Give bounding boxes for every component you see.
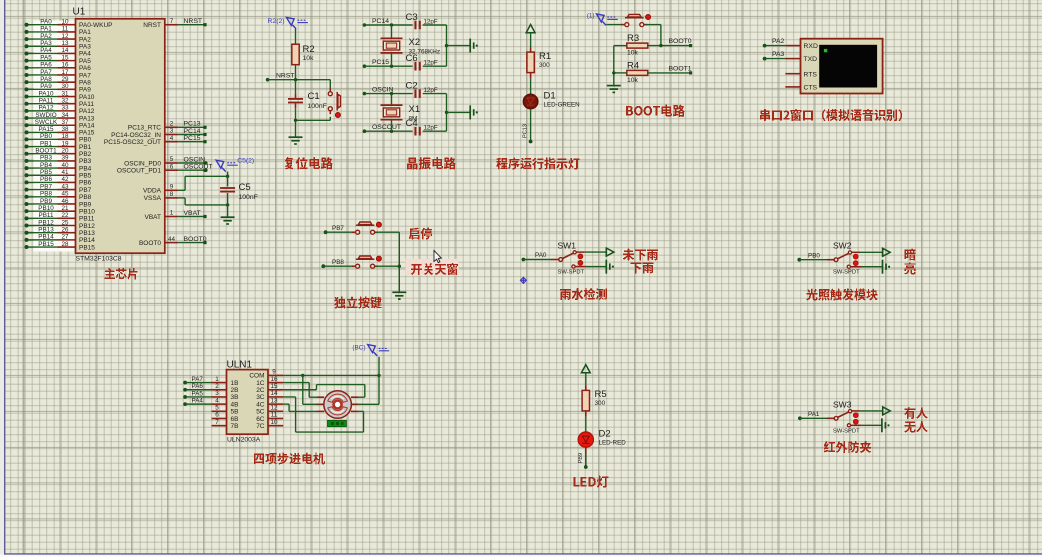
terminal dot PC15 [363,64,367,68]
U1 pin PA15 (38) wire + label PA15 [25,126,95,137]
terminal dot PC14 [363,23,367,27]
svg-text:BOOT0: BOOT0 [669,38,692,45]
terminal dot OSCIN [363,92,367,96]
U1 pin PA11 (32) wire + label PA11 [25,98,95,109]
svg-text:PB8: PB8 [40,191,52,198]
svg-text:PB12: PB12 [38,219,54,226]
svg-text:PC15: PC15 [184,135,201,142]
junction PC14/crystal [390,23,393,26]
reset push button [328,88,340,117]
switch SW3 SW-SPDT [834,410,861,427]
crystal X1 wires [391,94,393,132]
junction OSCOUT/crystal [390,130,393,133]
U1 pin PB3 (39) wire + label PB3 [25,155,92,166]
svg-text:37: 37 [61,119,69,126]
svg-text:16: 16 [270,376,278,383]
svg-text:(BC): (BC) [352,345,365,352]
svg-text:STM32F103C8: STM32F103C8 [76,256,122,263]
U1 pin PA14 (37) wire + label SWCLK [25,119,95,130]
ULN1 pin 1B (1) [212,376,239,387]
svg-text:RTS: RTS [804,71,818,78]
label 启停 [409,228,432,240]
svg-text:C3: C3 [406,12,418,23]
svg-text:10: 10 [61,19,69,26]
right rail X1 [446,94,448,132]
svg-text:PA11: PA11 [39,98,54,105]
caption 四项步进电机 [254,453,325,465]
svg-text:2B: 2B [231,387,239,394]
U1 pin PA13 (34) wire + label SWDIO [25,112,95,123]
crystal X2 wires [391,25,393,66]
svg-text:4C: 4C [256,401,265,408]
svg-text:PB14: PB14 [79,237,95,244]
svg-text:PB5: PB5 [40,169,52,176]
wire C3 to right rail [423,24,447,26]
junction C5 bottom [226,203,229,206]
wire VSSA to C5 bottom rail [178,198,227,205]
svg-text:PB7: PB7 [79,187,92,194]
capacitor C1 [288,91,327,110]
wire R2 bottom to NRST rail [295,65,297,80]
crystal X1 [381,104,421,123]
svg-text:PA1: PA1 [40,26,52,33]
label 无人 [905,421,928,433]
wire PA2 to RXD [765,45,801,47]
svg-text:PB10: PB10 [38,205,54,212]
svg-text:8M: 8M [409,115,418,122]
U1 pin NRST (7) net NRST [143,18,206,29]
label 下雨 [631,263,654,274]
svg-text:PB11: PB11 [39,212,54,219]
svg-text:X2: X2 [409,37,421,48]
ULN1 pin 7C (10) [256,419,283,430]
svg-text:300: 300 [539,62,550,69]
wire SW1 top to arrow 未下雨 [585,251,607,253]
resistor R5 [582,389,607,411]
wire to ground X1 [447,111,471,113]
wire COM right to motor right-middle and BC flag [358,357,379,405]
U1 pin PB15 (28) wire + label PB15 [25,241,96,252]
svg-text:PC14-OSC32_IN: PC14-OSC32_IN [111,132,161,139]
svg-text:X1: X1 [409,104,421,115]
mouse cursor [434,251,441,263]
main chip caption 主芯片 [105,268,138,280]
U1 pin PB14 (27) wire + label PB14 [25,234,96,245]
U1 pin PB6 (42) wire + label PB6 [25,176,92,187]
U1 pin VBAT (1) net VBAT [145,210,207,221]
U1 pin OSCOUT_PD1 (6) net OSCOUT [117,163,213,174]
wire 3C to motor right-bottom (routed below) [283,397,363,432]
wire reset button bottom [296,117,331,121]
terminal dot PA0 [522,258,526,262]
wire SW2 bottom to ground 亮 [861,266,883,268]
white label column behind PB pin names [34,136,75,252]
terminal dot OSCOUT [363,129,367,133]
wire to ground X2 [447,45,471,47]
svg-text:SW2: SW2 [833,241,852,251]
output terminal arrow 暗 [883,248,891,256]
wire C5 to ground [227,205,229,217]
U1 pin PA12 (33) wire + label PA12 [25,105,95,116]
svg-text:PB8: PB8 [332,259,344,266]
svg-text:PB0: PB0 [40,133,52,140]
terminal dot OSCOUT net [204,168,208,172]
svg-text:PC13: PC13 [184,121,201,128]
svg-text:2C: 2C [256,387,265,394]
junction right rail X1 [445,111,448,114]
svg-text:RXD: RXD [804,43,818,50]
wire COM to motor left-middle [303,375,317,404]
svg-text:1C: 1C [256,380,265,387]
terminal PA4 wire to 4B [183,398,211,407]
U1 pin PB8 (45) wire + label PB8 [25,191,92,202]
U1 pin PA6 (16) wire + label PA6 [25,62,92,73]
wire SW2 top to arrow 暗 [860,251,883,253]
svg-text:1B: 1B [231,380,239,387]
U1 pin PA10 (31) wire + label PA10 [25,90,95,101]
U1 pin PB0 (18) wire + label PB0 [25,133,92,144]
ground reset circuit [289,137,303,144]
svg-text:16: 16 [61,62,69,69]
svg-text:15: 15 [61,54,69,61]
terminal square BOOT0 [689,44,692,47]
svg-text:SW3: SW3 [833,399,852,409]
svg-text:1: 1 [170,210,174,217]
svg-text:3: 3 [215,390,219,397]
wire power to R5 [585,373,587,391]
caption LED灯 [574,476,609,488]
wire 4C to motor left-bottom [283,404,317,411]
U1 pin VSSA (8) [144,191,179,202]
svg-text:SWDIO: SWDIO [35,112,56,119]
svg-text:PB11: PB11 [79,216,95,223]
svg-text:R2: R2 [303,44,315,55]
power flag C5(2) [216,157,254,176]
svg-text:ULN1: ULN1 [227,359,253,370]
terminal dot PC13 net [529,140,533,144]
svg-text:PB9: PB9 [40,198,52,205]
U1 pin PA5 (15) wire + label PA5 [25,54,92,65]
svg-text:OSCOUT_PD1: OSCOUT_PD1 [117,168,161,175]
sheet margin left [0,0,4,557]
svg-text:SW-SPDT: SW-SPDT [558,270,585,276]
svg-text:PB0: PB0 [808,252,820,259]
junction C1/button [294,119,297,122]
wire C1 bottom to ground [295,103,297,136]
wire OSCIN row [364,93,412,95]
svg-text:CTS: CTS [804,85,818,92]
power flag (BC) [352,345,389,357]
svg-text:PB14: PB14 [38,234,54,241]
svg-text:21: 21 [61,205,69,212]
svg-text:32.768KHz: 32.768KHz [409,49,441,56]
ULN1 pin COM (9) [249,369,283,380]
wire D1 to PC13 terminal [523,109,531,142]
wire R5 to D2 [585,411,587,433]
output terminal arrow 未下雨 [606,248,614,256]
svg-text:PB7: PB7 [40,183,52,190]
svg-text:11: 11 [62,26,69,33]
svg-text:PB6: PB6 [40,176,52,183]
sheet border bottom [4,553,1042,555]
wire SW3 bottom to ground 无人 [861,424,882,426]
U1 pin PB13 (26) wire + label PB13 [25,226,96,237]
white label column behind PA pin names [34,21,75,137]
CTS pin stub [785,86,800,88]
wire PC15 row [364,65,412,67]
svg-text:44: 44 [168,236,176,243]
svg-text:PA8: PA8 [79,79,91,86]
label 亮 [905,263,916,275]
terminal dot PB9 net [584,465,588,469]
svg-text:3B: 3B [231,394,239,401]
caption 晶振电路 [407,157,456,170]
svg-text:PA14: PA14 [79,123,95,130]
svg-text:22: 22 [61,212,69,219]
wire PB8 button to right rail [376,265,399,267]
svg-text:5B: 5B [231,409,239,416]
svg-text:29: 29 [61,76,69,83]
svg-text:U1: U1 [73,7,86,18]
terminal dot PB8 [321,264,325,268]
U1 pin PC14-OSC32_IN (3) net PC14 [111,128,206,139]
terminal dot PA1 [798,416,802,420]
U1 pin PA2 (12) wire + label PA2 [25,33,92,44]
junction PB8 rail [398,265,401,268]
wire SW1 bottom to ground 下雨 [586,266,607,268]
wire SW3 top to arrow 有人 [860,410,883,412]
U1 pin PB12 (25) wire + label PB12 [25,219,96,230]
svg-text:PA4: PA4 [40,47,52,54]
svg-text:PA0: PA0 [535,252,547,259]
svg-text:NRST: NRST [143,22,161,29]
svg-text:3C: 3C [256,394,265,401]
power flag R2(2) [268,18,308,29]
power terminal arrow above R1 [526,25,535,33]
U1 pin VDDA (9) [143,184,178,195]
U1 pin PB4 (40) wire + label PB4 [25,162,92,173]
svg-text:VBAT: VBAT [184,210,201,217]
svg-text:VBAT: VBAT [145,214,162,221]
wire PC14 row [364,24,412,26]
svg-text:43: 43 [61,183,69,190]
U1 pin PA7 (17) wire + label PA7 [25,69,92,80]
junction BOOT0/button [659,44,662,47]
svg-text:12: 12 [61,33,69,40]
svg-text:PA9: PA9 [40,83,52,90]
svg-text:OSCOUT: OSCOUT [184,164,213,171]
svg-text:7C: 7C [256,423,265,430]
svg-text:5: 5 [215,405,219,412]
IC ULN1 ULN2003A body [227,370,269,435]
svg-text:PA3: PA3 [772,51,785,58]
capacitor C2 [406,80,438,98]
svg-text:26: 26 [61,226,69,233]
U1 pin PA1 (11) wire + label PA1 [25,26,92,37]
output terminal arrow 有人 [883,407,891,415]
svg-text:PA6: PA6 [79,65,91,72]
ground (rotated) SW3 [882,418,886,432]
svg-text:PA5: PA5 [79,58,91,65]
svg-text:PA3: PA3 [40,40,52,47]
resistor R4 [627,61,648,84]
label 未下雨 [623,249,658,261]
right rail buttons to ground [398,232,400,291]
svg-text:10k: 10k [627,50,639,57]
svg-text:33: 33 [61,105,69,112]
svg-text:OSCIN_PD0: OSCIN_PD0 [124,160,161,167]
wire flag to BOOT button [606,24,623,26]
virtual terminal pin labels [804,43,818,91]
ground buttons [392,292,406,299]
svg-text:46: 46 [61,198,69,205]
U1 pin PB2 (20) wire + label BOOT1 [25,148,92,159]
svg-text:PC13: PC13 [523,124,529,138]
svg-text:R4: R4 [627,61,639,72]
svg-text:SWCLK: SWCLK [35,119,58,126]
svg-text:PB9: PB9 [578,453,584,464]
wire VDDA to C5 rail [178,176,227,190]
wire NRST rail [268,79,331,81]
svg-text:1: 1 [215,376,219,383]
svg-text:D1: D1 [544,91,556,102]
ground (rotated) X2 [470,39,474,53]
svg-text:30: 30 [61,83,69,90]
svg-text:12: 12 [270,405,278,412]
ULN1 pin 3B (3) [212,390,239,401]
junction right rail X2 [445,44,448,47]
ULN1 pin 2B (2) [212,383,239,394]
U1 pin BOOT0 (44) net BOOT0 [139,236,207,247]
svg-text:PC13_RTC: PC13_RTC [128,125,161,132]
terminal PA7 wire to 1B [183,376,211,384]
capacitor C6 [406,53,438,71]
capacitor C3 [406,12,438,30]
ULN1 pin 4B (4) [212,397,239,408]
svg-text:PB2: PB2 [79,151,92,158]
svg-text:PA8: PA8 [40,76,52,83]
terminal dot PA3 [763,57,767,61]
caption 独立按键 [335,297,382,309]
ULN1 pin 1C (16) [256,376,283,387]
stepper motor body [324,391,352,419]
svg-text:8: 8 [170,191,174,198]
resistor R2 [292,44,315,65]
svg-text:R3: R3 [627,33,639,44]
svg-text:5: 5 [170,156,174,163]
svg-text:OSCIN: OSCIN [184,156,206,163]
ground (rotated) X1 [470,105,474,119]
svg-text:PC15-OSC32_OUT: PC15-OSC32_OUT [104,139,161,146]
ULN1 pin 2C (15) [256,383,283,394]
svg-text:C5: C5 [239,182,251,193]
U1 pin PB9 (46) wire + label PB9 [25,198,92,209]
U1 pin PB10 (21) wire + label PB10 [25,205,96,216]
terminal dot PA2 [763,44,767,48]
U1 pin PC13_RTC (2) net PC13 [128,121,207,132]
svg-text:100nF: 100nF [308,103,327,110]
left rail R3/R4 to ground [613,46,615,85]
right rail X2 [446,25,448,66]
svg-text:20: 20 [61,148,69,155]
svg-text:C1: C1 [308,91,320,102]
svg-text:13: 13 [61,40,69,47]
switch SW2 SW-SPDT [834,251,861,268]
svg-text:PA12: PA12 [39,105,54,112]
svg-text:BOOT0: BOOT0 [184,236,207,243]
svg-text:LED-RED: LED-RED [599,440,627,447]
svg-text:PA6: PA6 [192,383,204,390]
svg-text:2: 2 [215,383,219,390]
svg-text:PA1: PA1 [808,411,820,418]
svg-text:PA2: PA2 [772,38,785,45]
svg-text:17: 17 [61,69,69,76]
svg-text:PA13: PA13 [79,115,95,122]
svg-text:18: 18 [61,133,69,140]
NRST net terminal dot [266,78,270,82]
svg-text:PA4: PA4 [192,398,204,405]
svg-text:5C: 5C [256,409,265,416]
svg-text:PB1: PB1 [40,140,52,147]
svg-text:PA7: PA7 [79,72,91,79]
label 开关天窗 [411,263,458,275]
svg-text:28: 28 [61,241,69,248]
wire R3 right to BOOT0 [648,45,691,47]
svg-text:BOOT0: BOOT0 [139,240,161,247]
svg-text:6: 6 [215,412,219,419]
wire PB0 to SW2 [799,259,834,261]
svg-text:BOOT1: BOOT1 [669,65,692,72]
svg-text:C5(2): C5(2) [237,157,254,164]
U1 pin PC15-OSC32_OUT (4) net PC15 [104,135,207,146]
svg-text:PB4: PB4 [79,165,92,172]
virtual terminal cursor [824,49,827,52]
svg-text:PB1: PB1 [79,144,92,151]
push button 启停 (PB7) [352,222,381,234]
resistor R3 [627,33,648,56]
svg-text:LED-GREEN: LED-GREEN [544,102,580,109]
svg-text:PA0: PA0 [40,19,52,26]
ULN1 pin 5B (5) [212,405,239,416]
svg-text:PB10: PB10 [79,208,95,215]
wire C4 to right rail [423,130,447,132]
capacitor C5 [220,176,258,205]
svg-text:14: 14 [270,390,278,397]
ULN1 pin 6C (11) [256,412,283,423]
selection highlight 开关天窗 [406,259,459,276]
power terminal arrow above R5 [581,365,590,373]
junction R2/C1/NRST [294,78,297,81]
ULN1 pin 6B (6) [212,412,239,423]
svg-text:SW-SPDT: SW-SPDT [833,428,860,434]
svg-text:PB0: PB0 [79,137,92,144]
svg-text:PB8: PB8 [79,194,92,201]
svg-text:14: 14 [61,47,69,54]
svg-text:SW-SPDT: SW-SPDT [833,270,860,276]
svg-text:7B: 7B [231,423,239,430]
ULN1 pin 7B (7) [212,419,239,430]
svg-text:PB15: PB15 [79,244,95,251]
svg-text:VSSA: VSSA [144,195,162,202]
svg-text:25: 25 [61,219,69,226]
svg-text:7: 7 [170,18,174,25]
push button 开关天窗 (PB8) [352,256,381,268]
RTS pin stub [785,73,800,75]
svg-text:ULN2003A: ULN2003A [227,437,261,444]
terminal PA5 wire to 3B [183,390,211,399]
svg-text:PA1: PA1 [79,29,91,36]
LED D1 LED-GREEN [523,91,579,109]
